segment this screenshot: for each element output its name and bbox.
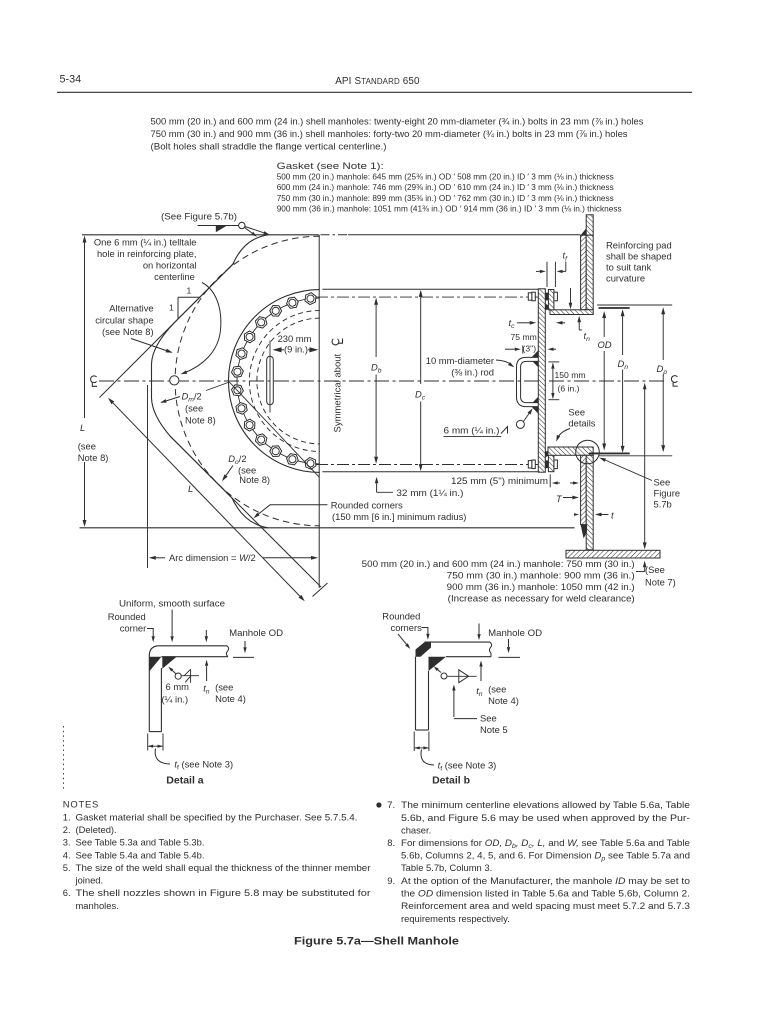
- svg-text:Note 4): Note 4): [488, 695, 519, 706]
- neck OD dashed arc: [249, 311, 319, 452]
- curved leader to telltale hole: [184, 283, 221, 374]
- svg-text:See Table 5.4a and Table 5.4b.: See Table 5.4a and Table 5.4b.: [76, 849, 205, 860]
- svg-text:2.: 2.: [63, 824, 71, 835]
- Detail b corner weld black band: [416, 642, 432, 657]
- tn dimension arrows: [570, 288, 572, 304]
- svg-text:centerline: centerline: [154, 271, 195, 282]
- svg-text:See: See: [654, 477, 671, 488]
- Detail a weld symbol: [175, 673, 181, 679]
- svg-text:(⅜ in.) rod: (⅜ in.) rod: [451, 367, 494, 378]
- arc dimension line and arrows: [156, 557, 165, 559]
- See Figure 5.7b leader bottom: [602, 459, 653, 481]
- rounded corner leader: [147, 629, 153, 635]
- weld circle on leader: [516, 420, 524, 428]
- svg-text:3.: 3.: [63, 837, 71, 848]
- svg-text:7.: 7.: [387, 799, 395, 810]
- cover-flange gap weld bottom: [545, 451, 548, 457]
- svg-text:Detail b: Detail b: [432, 775, 470, 787]
- svg-text:(Deleted).: (Deleted).: [76, 824, 117, 835]
- svg-text:t: t: [611, 510, 614, 521]
- svg-text:500 mm (20 in.) manhole: 645: 500 mm (20 in.) manhole: 645 mm (25⅜ in.…: [277, 172, 614, 182]
- svg-text:OD: OD: [598, 339, 612, 350]
- Detail b tf dimension: [413, 732, 415, 752]
- upper extension lines right: [597, 304, 672, 306]
- Dn dimension line: [622, 312, 624, 356]
- svg-text:(see: (see: [185, 403, 203, 414]
- OD dimension line: [603, 315, 605, 338]
- svg-text:5.6b, and Figure 5.6 may be us: 5.6b, and Figure 5.6 may be used when ap…: [401, 812, 690, 823]
- Detail a corner welds black: [149, 657, 161, 672]
- svg-text:See: See: [480, 713, 497, 724]
- Detail b neck plate: [415, 657, 417, 730]
- rod handle inner line: [521, 361, 539, 402]
- svg-text:500 mm (20 in.) and 600 mm (24: 500 mm (20 in.) and 600 mm (24 in.) shel…: [151, 116, 644, 127]
- bolt 6: [236, 348, 247, 360]
- svg-text:corners: corners: [391, 622, 423, 633]
- Detail b inner corner weld black: [429, 657, 447, 671]
- slot 230mm telltale slot: [267, 356, 274, 404]
- svg-text:Note 5: Note 5: [480, 724, 508, 735]
- bolt circle arc: [237, 298, 320, 464]
- neck upper wall section: [550, 310, 593, 315]
- svg-text:Rounded: Rounded: [108, 611, 146, 622]
- svg-text:Note 4): Note 4): [215, 693, 246, 704]
- bolting flange lower section: [548, 451, 554, 472]
- cover-flange gap weld top: [545, 304, 548, 310]
- bolt 4: [255, 317, 266, 328]
- bolt 14: [305, 457, 316, 469]
- svg-text:(See Figure 5.7b): (See Figure 5.7b): [161, 211, 237, 222]
- svg-text:(Increase as necessary for wel: (Increase as necessary for weld clearanc…: [448, 593, 635, 604]
- cover opening dashed arc: [257, 318, 320, 444]
- svg-text:One 6 mm (¼ in.) telltale: One 6 mm (¼ in.) telltale: [94, 237, 197, 248]
- svg-text:4.: 4.: [63, 849, 71, 860]
- centerline elevation dimension line: [644, 386, 646, 547]
- svg-text:6.: 6.: [63, 887, 71, 898]
- bolt 12: [270, 446, 282, 457]
- svg-text:Detail a: Detail a: [166, 775, 204, 787]
- svg-text:(see: (see: [78, 441, 96, 452]
- bolting flange upper section: [548, 290, 554, 310]
- leaders to corners: [398, 634, 406, 644]
- svg-text:900 mm (36 in.) manhole: 1050: 900 mm (36 in.) manhole: 1050 mm (42 in.…: [447, 581, 635, 592]
- shell plate lower section: [586, 455, 593, 550]
- bolt 5: [244, 331, 255, 343]
- telltale hole circle: [170, 376, 179, 385]
- shell plate top edge: [82, 234, 319, 236]
- See details leader: [558, 429, 570, 439]
- svg-text:750 mm (30 in.) manhole: 899: 750 mm (30 in.) manhole: 899 mm (35⅜ in.…: [277, 193, 614, 203]
- slot centerline extension: [269, 341, 271, 413]
- leader arrow to dashed circle: [131, 339, 166, 351]
- left vertical L dimension line: [84, 239, 86, 419]
- svg-text:API STANDARD 650: API STANDARD 650: [335, 76, 420, 87]
- svg-text:corner: corner: [120, 623, 147, 634]
- rounded corners leader: [256, 505, 328, 516]
- svg-text:Note 8): Note 8): [185, 415, 216, 426]
- svg-text:(¼ in.): (¼ in.): [162, 694, 189, 705]
- reinforcing plate outline rounded octagon: [152, 235, 269, 528]
- bolt 8: [232, 385, 244, 396]
- centerline CL symbol right: [671, 376, 677, 386]
- flange OD arc: [228, 290, 319, 473]
- Detail a tf dimension: [147, 734, 149, 751]
- rod handle outer line: [517, 357, 539, 406]
- weld flag small: [501, 427, 508, 434]
- cover top extension line: [322, 288, 540, 290]
- See Note 7 leader arrow: [644, 567, 646, 571]
- svg-text:The size of the weld shall equ: The size of the weld shall equal the thi…: [76, 862, 371, 873]
- lower chamfer construction line extended: [170, 436, 321, 587]
- left margin dotted mark: [63, 726, 65, 791]
- svg-text:Rounded: Rounded: [382, 611, 420, 622]
- symmetry line vertical: [318, 235, 320, 588]
- leader from Dm/2 to centerline: [206, 382, 230, 391]
- svg-text:125 mm (5") minimum: 125 mm (5") minimum: [451, 475, 548, 486]
- bolt circle extension dash-dot bottom: [316, 464, 540, 466]
- bolt circle extension dash-dot top: [316, 296, 540, 298]
- svg-text:The minimum centerline elevati: The minimum centerline elevations allowe…: [401, 799, 690, 810]
- svg-text:(see: (see: [488, 684, 506, 695]
- detail circle callout at lower joint: [576, 440, 600, 464]
- Detail a neck plate: [148, 663, 150, 732]
- svg-text:See: See: [568, 407, 585, 418]
- svg-text:(6 in.): (6 in.): [558, 384, 580, 394]
- Detail b weld symbol: [441, 673, 447, 679]
- svg-text:(Bolt holes shall straddle the: (Bolt holes shall straddle the flange ve…: [151, 141, 387, 152]
- bolt 2: [287, 297, 299, 308]
- tank bottom plate section: [566, 550, 660, 558]
- bolt 13: [287, 454, 299, 465]
- svg-text:curvature: curvature: [606, 273, 645, 284]
- Do/2 arrow to plate chamfer edge: [226, 466, 233, 476]
- end tick of L dimension: [313, 583, 328, 597]
- weld symbol line and flag: [198, 225, 239, 227]
- svg-text:hole in reinforcing plate,: hole in reinforcing plate,: [97, 248, 197, 259]
- svg-text:Note 8): Note 8): [78, 452, 109, 463]
- svg-text:(9 in.): (9 in.): [284, 344, 308, 355]
- leader to joint: [523, 412, 530, 422]
- notes right column bullet: [376, 802, 381, 807]
- cover bottom extension line: [322, 471, 538, 473]
- svg-text:on horizontal: on horizontal: [143, 260, 197, 271]
- svg-text:Figure 5.7a—Shell Manhole: Figure 5.7a—Shell Manhole: [294, 936, 459, 948]
- Dm/2 arrow to plate outline: [166, 397, 180, 401]
- svg-text:Manhole OD: Manhole OD: [229, 627, 283, 638]
- svg-text:(see: (see: [215, 682, 233, 693]
- svg-text:Gasket material shall be speci: Gasket material shall be specified by th…: [76, 811, 358, 822]
- svg-text:9.: 9.: [387, 875, 395, 886]
- top edge extension to reinforcing pad: [321, 234, 349, 236]
- svg-text:5.: 5.: [63, 862, 71, 873]
- construction diagonal to lower symmetry corner: [230, 382, 320, 477]
- svg-text:750 mm (30 in.) and 900 mm (36: 750 mm (30 in.) and 900 mm (36 in.) shel…: [151, 128, 628, 139]
- Detail b flange plate: [425, 641, 491, 643]
- svg-text:1: 1: [187, 286, 192, 296]
- reinforcing pad upper section: [581, 235, 587, 310]
- lower extension lines right: [599, 455, 673, 457]
- shell plate upper section: [586, 235, 593, 310]
- bolt 10: [244, 419, 255, 431]
- svg-text:Reinforcing pad: Reinforcing pad: [606, 240, 672, 251]
- rod leader arrow: [496, 360, 511, 365]
- svg-text:NOTES: NOTES: [63, 799, 99, 810]
- Detail b tf label leader: [421, 750, 434, 766]
- pad weld top black: [581, 228, 587, 235]
- reinforcing pad lower section: [581, 455, 587, 524]
- svg-text:5.7b: 5.7b: [654, 499, 672, 510]
- svg-text:details: details: [568, 418, 595, 429]
- bolt 1: [305, 293, 316, 305]
- neck lower wall section: [548, 447, 593, 455]
- bolt 7: [232, 366, 244, 377]
- svg-text:The shell nozzles shown in Fig: The shell nozzles shown in Figure 5.8 ma…: [76, 887, 371, 898]
- bolt 9: [236, 403, 247, 415]
- diagonal L dimension line: [113, 403, 200, 493]
- bolt 3: [270, 306, 282, 317]
- bolt 11: [255, 434, 266, 445]
- svg-text:(see Note 8): (see Note 8): [102, 326, 154, 337]
- shell plate bottom edge: [80, 527, 575, 529]
- arc dimension W/2 extension line: [147, 385, 149, 568]
- svg-text:Note 7): Note 7): [645, 577, 676, 588]
- Detail a flange plate: [149, 646, 227, 663]
- svg-text:750 mm (30 in.) manhole: 900 m: 750 mm (30 in.) manhole: 900 mm (36 in.): [447, 570, 635, 581]
- centerline CL symbol left: [91, 376, 97, 386]
- svg-text:L: L: [80, 422, 85, 433]
- svg-text:6 mm: 6 mm: [166, 681, 190, 692]
- svg-text:500 mm (20 in.) and 600 mm (24: 500 mm (20 in.) and 600 mm (24 in.) manh…: [362, 558, 635, 569]
- svg-text:8.: 8.: [387, 837, 395, 848]
- svg-text:150 mm: 150 mm: [555, 370, 586, 380]
- svg-text:1.: 1.: [63, 811, 71, 822]
- cover plate section: [538, 289, 545, 472]
- svg-text:900 mm (36 in.) manhole: 1051: 900 mm (36 in.) manhole: 1051 mm (41⅜ in…: [277, 203, 622, 213]
- header rule: [57, 91, 692, 93]
- svg-text:Alternative: Alternative: [109, 302, 153, 313]
- svg-text:6 mm (¼ in.): 6 mm (¼ in.): [444, 425, 500, 436]
- svg-text:joined.: joined.: [75, 875, 104, 886]
- svg-text:At the option of the Manufactu: At the option of the Manufacturer, the m…: [401, 875, 690, 886]
- svg-text:Symmetrical about: Symmetrical about: [333, 353, 344, 432]
- svg-text:circular shape: circular shape: [95, 315, 153, 326]
- Db dimension line: [375, 300, 377, 357]
- svg-text:to suit tank: to suit tank: [606, 262, 652, 273]
- symmetrical about CL rotated text: [333, 353, 344, 432]
- svg-text:Uniform, smooth surface: Uniform, smooth surface: [119, 598, 225, 609]
- svg-text:75 mm: 75 mm: [511, 332, 537, 342]
- svg-text:10 mm-diameter: 10 mm-diameter: [426, 355, 494, 366]
- shell plate above pad section: [586, 215, 593, 235]
- Detail a tf label leader: [155, 749, 170, 765]
- Dc dimension line: [420, 292, 422, 385]
- svg-text:(150 mm [6 in.] minimum radius: (150 mm [6 in.] minimum radius): [332, 511, 466, 522]
- alternative circular shape dashed circle: [175, 236, 320, 526]
- slope construction diagonal 1:1: [100, 263, 235, 398]
- svg-text:1: 1: [169, 303, 174, 313]
- Dp dimension line: [662, 310, 664, 360]
- svg-text:shall be shaped: shall be shaped: [606, 251, 672, 262]
- svg-text:Reinforcement area and weld sp: Reinforcement area and weld spacing must…: [401, 900, 690, 911]
- svg-text:Table 5.7b, Column 3.: Table 5.7b, Column 3.: [401, 862, 492, 873]
- rod welds black: [532, 350, 539, 357]
- svg-text:(See: (See: [645, 564, 665, 575]
- slope triangle 1:1: [177, 297, 179, 318]
- weld leader arrows: [245, 228, 253, 234]
- svg-text:230 mm: 230 mm: [278, 333, 312, 344]
- svg-text:Gasket (see Note 1):: Gasket (see Note 1):: [277, 160, 384, 171]
- svg-text:Rounded corners: Rounded corners: [331, 500, 403, 511]
- svg-text:Figure: Figure: [654, 488, 681, 499]
- 150 mm dimension: [548, 361, 559, 363]
- svg-text:Note 8): Note 8): [239, 474, 270, 485]
- See Note 5 leader: [453, 691, 455, 718]
- svg-text:600 mm (24 in.) manhole: 746: 600 mm (24 in.) manhole: 746 mm (29⅜ in.…: [277, 182, 614, 192]
- top bolt through cover and flange: [528, 293, 532, 300]
- svg-text:the OD dimension listed in Tab: the OD dimension listed in Table 5.6a an…: [401, 888, 690, 899]
- svg-text:manholes.: manholes.: [76, 900, 119, 911]
- svg-text:See Table 5.3a and Table 5.3b.: See Table 5.3a and Table 5.3b.: [76, 837, 205, 848]
- svg-text:Arc dimension = W/2: Arc dimension = W/2: [169, 552, 256, 563]
- surface arrows: [171, 610, 173, 637]
- svg-text:Manhole OD: Manhole OD: [488, 627, 542, 638]
- svg-text:32 mm (1¼ in.): 32 mm (1¼ in.): [396, 487, 463, 498]
- bottom bolt through cover and flange: [528, 461, 532, 468]
- svg-text:(3"): (3"): [523, 344, 537, 354]
- svg-text:L: L: [188, 483, 193, 494]
- pad weld bottom black: [581, 525, 588, 539]
- svg-text:5-34: 5-34: [60, 74, 82, 86]
- weld all-around circle: [239, 222, 245, 228]
- horizontal centerline dash-dot: [99, 380, 668, 382]
- svg-text:chaser.: chaser.: [401, 825, 431, 836]
- 32 mm callout: [376, 483, 378, 492]
- svg-text:requirements respectively.: requirements respectively.: [401, 913, 510, 924]
